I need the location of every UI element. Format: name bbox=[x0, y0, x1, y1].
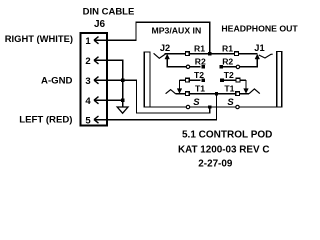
svg-text:T1: T1 bbox=[224, 83, 234, 93]
svg-text:T1: T1 bbox=[195, 83, 205, 93]
svg-text:2-27-09: 2-27-09 bbox=[198, 159, 233, 170]
J2 contact T2 (square) bbox=[185, 78, 189, 82]
wire ground column pin3 to pin4 bbox=[122, 80, 124, 100]
svg-text:R1: R1 bbox=[222, 43, 233, 53]
svg-text:R1: R1 bbox=[194, 43, 205, 53]
svg-text:T2: T2 bbox=[194, 70, 204, 80]
svg-text:J2: J2 bbox=[160, 43, 170, 53]
svg-text:DIN CABLE: DIN CABLE bbox=[83, 6, 135, 17]
J6 pin 5 bbox=[85, 115, 98, 126]
J2 T2 open end bbox=[201, 78, 205, 82]
J1 tip contact (R1 spring) bbox=[259, 54, 273, 58]
svg-text:3: 3 bbox=[85, 76, 90, 87]
wire pin2 to ground column bbox=[94, 60, 123, 80]
svg-text:J6: J6 bbox=[94, 19, 106, 30]
J2 ring switch arm to R2 bbox=[165, 54, 186, 67]
junction T1 row / pin5 bbox=[215, 92, 218, 95]
junction pin4/ground bbox=[121, 99, 124, 102]
svg-text:R2: R2 bbox=[222, 57, 233, 67]
svg-text:5.1 CONTROL POD: 5.1 CONTROL POD bbox=[182, 130, 272, 141]
J2 contact R2 (circle) bbox=[186, 65, 189, 68]
J1 contact R2 (circle) bbox=[236, 65, 239, 68]
J1 R2 open end bbox=[220, 65, 224, 69]
junction S row / ground bbox=[208, 105, 211, 108]
wire pin5 (LEFT) to T1 row bbox=[94, 94, 217, 120]
J1 ring switch arm to R2 bbox=[240, 54, 260, 67]
J1 T2 switch arm to T1 bbox=[244, 80, 249, 93]
ground bbox=[117, 100, 128, 113]
J6 pin 4 bbox=[85, 96, 98, 107]
T1 row wire bbox=[176, 93, 250, 95]
J6 pin 2 bbox=[85, 56, 98, 67]
J2 contact S (circle) bbox=[186, 105, 189, 108]
R1 row wire bbox=[165, 53, 258, 55]
svg-text:T2: T2 bbox=[224, 70, 234, 80]
svg-text:LEFT (RED): LEFT (RED) bbox=[19, 114, 72, 125]
J2 contact T1 (square) bbox=[185, 92, 189, 96]
wire pin3 (A-GND) to S row bbox=[94, 80, 210, 113]
svg-text:RIGHT (WHITE): RIGHT (WHITE) bbox=[5, 33, 73, 44]
S row wire bbox=[150, 106, 282, 108]
jack J2 plug body bbox=[144, 52, 150, 107]
wire pin4 bbox=[94, 99, 123, 101]
junction pin2/pin3 bbox=[121, 79, 124, 82]
J6 pin 1 bbox=[85, 36, 98, 47]
svg-text:S: S bbox=[227, 97, 234, 108]
svg-text:A-GND: A-GND bbox=[41, 75, 73, 86]
connector J6 body bbox=[81, 33, 108, 126]
svg-text:5: 5 bbox=[85, 115, 91, 126]
jack J1 plug body bbox=[277, 52, 282, 108]
svg-text:1: 1 bbox=[85, 36, 91, 47]
J2 R2 stub wire bbox=[186, 66, 201, 68]
svg-text:KAT 1200-03 REV C: KAT 1200-03 REV C bbox=[178, 145, 269, 156]
J1 T2 open end bbox=[220, 78, 224, 82]
J2 T2 switch arm to T1 bbox=[177, 80, 182, 93]
J1 contact S (circle) bbox=[236, 105, 239, 108]
J2 R2 open end bbox=[201, 65, 205, 69]
J1 tip contact (T1 spring) bbox=[249, 89, 260, 94]
J1 contact T2 (square) bbox=[236, 78, 240, 82]
J1 contact T1 (square) bbox=[236, 92, 240, 96]
svg-text:MP3/AUX IN: MP3/AUX IN bbox=[152, 26, 202, 36]
J2 contact R1 (square) bbox=[185, 52, 189, 56]
svg-text:HEADPHONE OUT: HEADPHONE OUT bbox=[221, 24, 298, 34]
J1 R2 stub wire bbox=[221, 66, 240, 68]
J2 tip contact (T1 spring) bbox=[166, 90, 176, 94]
J1 contact R1 (square) bbox=[235, 52, 239, 56]
junction R1 row / pin1 bbox=[208, 52, 211, 55]
svg-text:2: 2 bbox=[85, 56, 90, 67]
wire pin1 to R1 net bbox=[94, 22, 210, 53]
svg-text:S: S bbox=[193, 97, 200, 108]
J6 pin 3 bbox=[85, 76, 98, 87]
svg-text:J1: J1 bbox=[254, 43, 264, 53]
J2 tip contact (R1 spring) bbox=[154, 53, 166, 58]
J2 T2 stub wire bbox=[180, 79, 201, 81]
J1 T2 stub wire bbox=[222, 79, 246, 81]
svg-text:4: 4 bbox=[85, 96, 91, 107]
svg-text:R2: R2 bbox=[195, 57, 206, 67]
